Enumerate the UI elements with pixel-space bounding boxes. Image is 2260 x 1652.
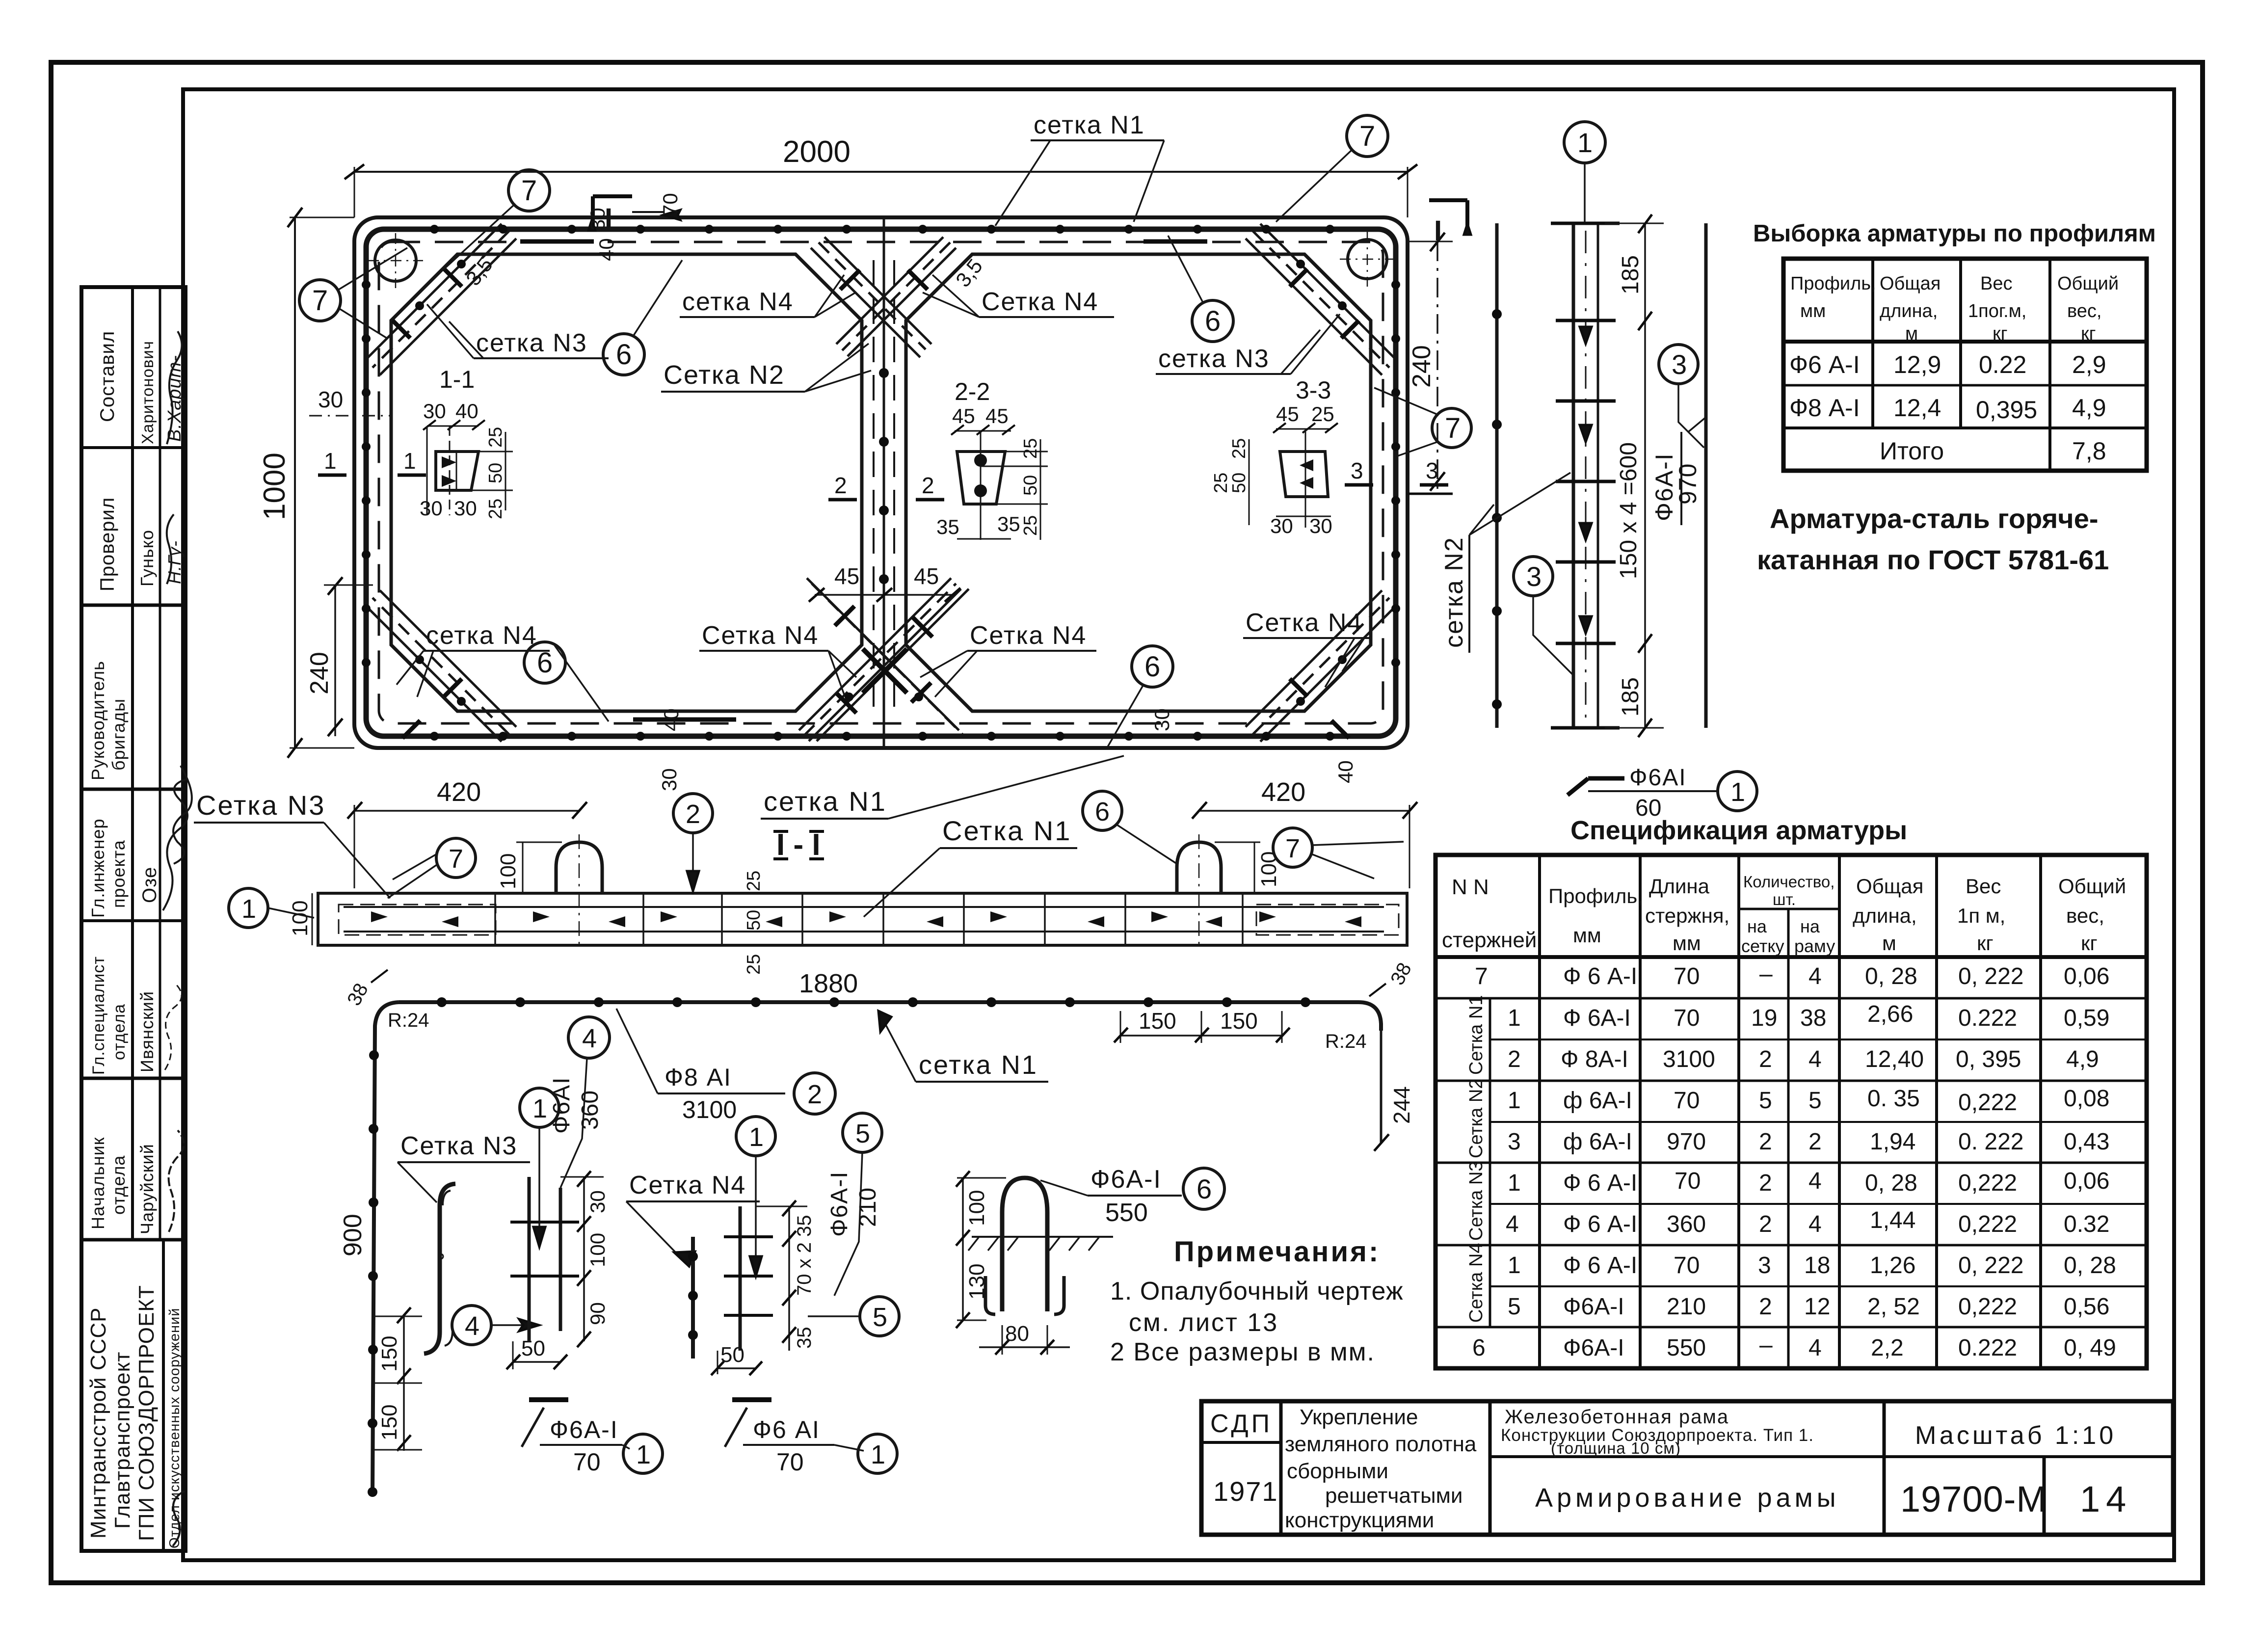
svg-text:2-2: 2-2 <box>955 378 990 405</box>
svg-text:Масштаб 1:10: Масштаб 1:10 <box>1915 1421 2116 1450</box>
svg-text:Профиль,: Профиль, <box>1548 884 1643 907</box>
svg-text:70: 70 <box>1674 963 1700 989</box>
svg-text:6: 6 <box>1205 305 1221 337</box>
svg-text:6: 6 <box>616 339 632 371</box>
svg-text:Ивянский: Ивянский <box>137 991 157 1072</box>
svg-text:Сетка N2: Сетка N2 <box>1466 1079 1487 1158</box>
svg-text:0, 28: 0, 28 <box>1865 1170 1917 1196</box>
svg-text:45: 45 <box>1276 402 1299 426</box>
svg-text:7: 7 <box>449 844 463 874</box>
svg-text:3-3: 3-3 <box>1296 376 1331 404</box>
svg-text:Сетка N4: Сетка N4 <box>982 288 1098 316</box>
svg-text:0,43: 0,43 <box>2064 1129 2109 1155</box>
svg-text:0. 35: 0. 35 <box>1867 1086 1920 1112</box>
svg-text:900: 900 <box>339 1214 367 1256</box>
svg-text:0, 222: 0, 222 <box>1958 1252 2023 1279</box>
svg-text:Длина: Длина <box>1649 875 1710 898</box>
svg-text:550: 550 <box>1667 1335 1706 1361</box>
svg-text:сетка N1: сетка N1 <box>919 1050 1038 1080</box>
svg-text:45: 45 <box>985 404 1009 427</box>
svg-text:1: 1 <box>241 894 256 924</box>
svg-text:2: 2 <box>1759 1046 1772 1072</box>
svg-text:35: 35 <box>936 515 959 538</box>
svg-text:Ф6А-I: Ф6А-I <box>826 1171 852 1237</box>
svg-text:Арматура-сталь горяче-: Арматура-сталь горяче- <box>1770 503 2098 534</box>
svg-text:решетчатыми: решетчатыми <box>1325 1484 1462 1508</box>
svg-text:3: 3 <box>1508 1129 1521 1155</box>
svg-text:100: 100 <box>1257 852 1281 887</box>
svg-text:Сетка N1: Сетка N1 <box>1466 995 1487 1075</box>
svg-text:25: 25 <box>1020 438 1041 459</box>
svg-text:3100: 3100 <box>682 1096 737 1123</box>
svg-text:35: 35 <box>794 1215 815 1237</box>
svg-text:70: 70 <box>659 193 682 216</box>
svg-text:40: 40 <box>595 238 618 261</box>
svg-text:30: 30 <box>454 497 477 520</box>
svg-text:Ф6А-I: Ф6А-I <box>1563 1335 1624 1361</box>
svg-text:1: 1 <box>749 1122 764 1152</box>
svg-text:12,4: 12,4 <box>1893 394 1941 422</box>
svg-text:90: 90 <box>586 1302 609 1325</box>
svg-text:100: 100 <box>586 1233 609 1267</box>
svg-text:0,59: 0,59 <box>2064 1005 2109 1031</box>
svg-text:4: 4 <box>1808 1168 1822 1194</box>
svg-text:Профиль,: Профиль, <box>1790 273 1876 294</box>
svg-text:см. лист 13: см. лист 13 <box>1129 1308 1278 1337</box>
svg-text:1971: 1971 <box>1213 1476 1278 1507</box>
svg-text:150 x 4 =600: 150 x 4 =600 <box>1616 442 1642 579</box>
svg-text:150: 150 <box>377 1405 401 1440</box>
svg-text:7,8: 7,8 <box>2072 437 2106 465</box>
svg-text:Харитонович: Харитонович <box>138 341 157 444</box>
svg-text:Общий: Общий <box>2058 875 2126 898</box>
svg-text:19: 19 <box>1751 1005 1777 1031</box>
svg-text:на: на <box>1800 916 1820 936</box>
svg-text:2: 2 <box>1759 1294 1772 1320</box>
svg-text:1п м,: 1п м, <box>1957 904 2005 927</box>
svg-text:(толщина 10 см): (толщина 10 см) <box>1551 1439 1681 1457</box>
svg-text:1: 1 <box>1508 1170 1521 1196</box>
svg-text:I - I: I - I <box>776 828 821 862</box>
svg-text:4: 4 <box>1808 1211 1822 1237</box>
svg-text:раму: раму <box>1794 936 1835 956</box>
svg-text:кг: кг <box>1977 932 1994 955</box>
svg-text:Спецификация арматуры: Спецификация арматуры <box>1570 816 1907 845</box>
svg-text:мм: мм <box>1573 924 1601 947</box>
svg-text:14: 14 <box>2080 1479 2132 1519</box>
svg-text:0,222: 0,222 <box>1958 1090 2017 1116</box>
svg-text:0, 28: 0, 28 <box>1865 963 1917 989</box>
svg-text:1: 1 <box>871 1440 885 1469</box>
svg-text:сетка N4: сетка N4 <box>426 621 537 650</box>
svg-text:4: 4 <box>1506 1211 1519 1237</box>
svg-text:185: 185 <box>1618 677 1644 717</box>
svg-text:1пог.м,: 1пог.м, <box>1968 301 2026 321</box>
svg-text:30: 30 <box>1309 514 1332 537</box>
svg-text:Руководитель: Руководитель <box>88 661 108 780</box>
svg-text:Озе: Озе <box>139 867 160 903</box>
svg-text:Сетка N4: Сетка N4 <box>970 621 1087 650</box>
svg-text:5: 5 <box>1508 1294 1521 1320</box>
svg-text:6: 6 <box>1095 797 1110 826</box>
svg-text:земляного полотна: земляного полотна <box>1285 1432 1477 1456</box>
svg-text:1: 1 <box>1508 1088 1521 1114</box>
svg-text:отдела: отдела <box>110 1004 129 1060</box>
svg-text:70 x 2: 70 x 2 <box>794 1242 815 1296</box>
svg-text:сетка N4: сетка N4 <box>682 288 794 316</box>
svg-text:Составил: Составил <box>97 331 118 422</box>
svg-text:Главтранспроект: Главтранспроект <box>110 1352 134 1529</box>
svg-text:Сетка N4: Сетка N4 <box>1246 609 1362 637</box>
svg-text:1: 1 <box>1508 1005 1521 1031</box>
svg-text:Ф8 А-I: Ф8 А-I <box>1789 394 1860 422</box>
svg-text:Количество,: Количество, <box>1743 873 1835 891</box>
svg-text:сетка N1: сетка N1 <box>1034 111 1145 139</box>
svg-text:Ф6А-I: Ф6А-I <box>1563 1294 1624 1320</box>
svg-text:30: 30 <box>1150 708 1173 731</box>
svg-text:Сетка N3: Сетка N3 <box>1466 1161 1487 1241</box>
svg-text:сетка N3: сетка N3 <box>1158 345 1270 373</box>
svg-text:25: 25 <box>1211 473 1231 493</box>
svg-text:Минтрансстрой СССР: Минтрансстрой СССР <box>86 1307 110 1539</box>
svg-text:7: 7 <box>1359 120 1375 152</box>
svg-text:2: 2 <box>1808 1129 1822 1155</box>
svg-text:150: 150 <box>1220 1008 1258 1034</box>
svg-text:7: 7 <box>521 175 537 207</box>
svg-text:сетка N3: сетка N3 <box>476 329 587 357</box>
svg-text:6: 6 <box>1144 651 1160 683</box>
svg-text:30: 30 <box>658 768 681 791</box>
svg-text:0. 222: 0. 222 <box>1958 1129 2023 1155</box>
svg-text:1: 1 <box>1730 777 1745 807</box>
svg-text:м: м <box>1905 323 1918 344</box>
svg-text:Сетка N4: Сетка N4 <box>702 621 819 650</box>
svg-text:12: 12 <box>1804 1294 1830 1320</box>
svg-text:I: I <box>1434 215 1442 247</box>
svg-text:Сетка N1: Сетка N1 <box>942 815 1071 846</box>
svg-text:м: м <box>1882 932 1896 955</box>
svg-text:130: 130 <box>965 1264 989 1300</box>
svg-text:сетка N1: сетка N1 <box>764 786 887 817</box>
svg-text:240: 240 <box>1408 345 1436 388</box>
svg-text:СДП: СДП <box>1210 1410 1273 1438</box>
svg-text:0, 222: 0, 222 <box>1958 963 2023 989</box>
svg-text:Ф 6 А-I: Ф 6 А-I <box>1563 1170 1637 1196</box>
svg-text:4,9: 4,9 <box>2066 1046 2099 1072</box>
svg-text:Общая: Общая <box>1880 273 1941 294</box>
svg-text:3: 3 <box>1526 561 1542 592</box>
svg-text:45: 45 <box>952 404 975 427</box>
svg-text:стержня,: стержня, <box>1645 904 1729 927</box>
svg-text:Гунько: Гунько <box>137 530 157 586</box>
svg-text:50: 50 <box>1020 475 1041 496</box>
svg-text:0,395: 0,395 <box>1976 396 2037 424</box>
svg-text:0,06: 0,06 <box>2064 1168 2109 1194</box>
svg-text:Проверил: Проверил <box>97 497 118 591</box>
svg-text:2,9: 2,9 <box>2072 351 2106 378</box>
svg-text:4: 4 <box>582 1024 597 1053</box>
svg-text:1-1: 1-1 <box>439 366 475 393</box>
svg-text:25: 25 <box>1229 438 1250 459</box>
svg-text:R:24: R:24 <box>388 1010 429 1031</box>
svg-text:45: 45 <box>914 563 939 589</box>
svg-text:Сетка N3: Сетка N3 <box>196 790 325 821</box>
svg-text:970: 970 <box>1674 464 1702 505</box>
svg-text:В.Харит-: В.Харит- <box>164 355 185 442</box>
svg-text:Ф 8А-I: Ф 8А-I <box>1561 1046 1628 1072</box>
svg-text:длина,: длина, <box>1880 301 1938 321</box>
svg-text:50: 50 <box>1229 473 1250 493</box>
svg-text:0.22: 0.22 <box>1979 351 2026 378</box>
svg-text:360: 360 <box>577 1091 603 1130</box>
svg-text:420: 420 <box>1261 777 1305 807</box>
svg-text:100: 100 <box>965 1190 989 1226</box>
svg-text:150: 150 <box>377 1336 401 1372</box>
svg-text:4: 4 <box>1808 1046 1822 1072</box>
svg-text:Общая: Общая <box>1856 875 1923 898</box>
svg-text:Ф8 АI: Ф8 АI <box>665 1064 732 1091</box>
svg-text:на: на <box>1747 916 1767 936</box>
svg-text:3: 3 <box>1672 349 1687 380</box>
svg-text:Общий: Общий <box>2057 273 2119 294</box>
svg-text:кг: кг <box>2081 932 2098 955</box>
svg-text:сетку: сетку <box>1741 936 1784 956</box>
svg-text:Сетка N2: Сетка N2 <box>664 360 785 390</box>
svg-text:100: 100 <box>288 901 312 936</box>
svg-text:ф 6А-I: ф 6А-I <box>1563 1088 1632 1114</box>
svg-text:0,222: 0,222 <box>1958 1294 2017 1320</box>
svg-text:45: 45 <box>834 563 859 589</box>
svg-text:2,2: 2,2 <box>1871 1335 1904 1361</box>
svg-text:Вес: Вес <box>1980 273 2012 294</box>
svg-text:2: 2 <box>922 473 934 498</box>
svg-text:50: 50 <box>744 910 764 931</box>
svg-text:конструкциями: конструкциями <box>1285 1508 1434 1532</box>
svg-text:Ф 6 А-I: Ф 6 А-I <box>1563 963 1637 989</box>
svg-text:25: 25 <box>1020 515 1041 536</box>
svg-text:35: 35 <box>997 512 1020 535</box>
svg-text:25: 25 <box>744 954 764 975</box>
svg-text:мм: мм <box>1800 301 1826 321</box>
svg-text:50: 50 <box>720 1343 744 1367</box>
svg-text:2: 2 <box>807 1080 822 1109</box>
svg-text:–: – <box>1759 961 1773 987</box>
svg-text:1,26: 1,26 <box>1870 1252 1915 1279</box>
svg-text:70: 70 <box>1674 1252 1700 1279</box>
svg-text:Итого: Итого <box>1880 437 1944 465</box>
svg-text:1. Опалубочный чертеж: 1. Опалубочный чертеж <box>1110 1277 1404 1306</box>
svg-text:Ф 6А-I: Ф 6А-I <box>1563 1005 1631 1031</box>
svg-text:вес,: вес, <box>2066 904 2104 927</box>
svg-text:0,222: 0,222 <box>1958 1211 2017 1237</box>
svg-text:50: 50 <box>485 463 506 483</box>
svg-text:катанная по ГОСТ 5781-61: катанная по ГОСТ 5781-61 <box>1757 544 2109 575</box>
svg-text:2000: 2000 <box>783 135 851 169</box>
svg-text:мм: мм <box>1673 932 1701 955</box>
svg-text:Чаруйский: Чаруйский <box>137 1144 157 1234</box>
svg-text:25: 25 <box>1311 402 1334 426</box>
svg-text:6: 6 <box>1472 1335 1486 1361</box>
svg-text:240: 240 <box>305 652 334 694</box>
svg-text:12,40: 12,40 <box>1865 1046 1924 1072</box>
svg-text:1: 1 <box>636 1440 651 1469</box>
svg-text:1000: 1000 <box>258 453 292 520</box>
svg-text:Сетка N3: Сетка N3 <box>400 1132 517 1160</box>
svg-text:18: 18 <box>1804 1252 1830 1279</box>
svg-text:3100: 3100 <box>1663 1046 1715 1072</box>
svg-text:7: 7 <box>1445 412 1461 444</box>
svg-text:Сетка N4: Сетка N4 <box>1466 1243 1487 1323</box>
svg-text:Н.Гу-: Н.Гу- <box>164 540 185 584</box>
svg-text:сетка N2: сетка N2 <box>1440 536 1468 648</box>
svg-text:бригады: бригады <box>108 698 129 771</box>
svg-text:R:24: R:24 <box>1325 1031 1367 1052</box>
svg-text:4: 4 <box>465 1311 479 1341</box>
svg-text:40: 40 <box>660 708 683 731</box>
svg-text:185: 185 <box>1618 255 1644 294</box>
svg-text:2: 2 <box>1759 1129 1772 1155</box>
svg-text:30: 30 <box>586 208 609 231</box>
svg-text:Ф6А-I: Ф6А-I <box>1090 1165 1162 1194</box>
svg-text:0,222: 0,222 <box>1958 1170 2017 1196</box>
svg-text:Выборка арматуры по профилям: Выборка арматуры по профилям <box>1753 220 2156 247</box>
svg-text:7: 7 <box>312 285 328 317</box>
svg-text:30: 30 <box>423 400 446 423</box>
svg-text:Сетка N4: Сетка N4 <box>629 1171 746 1199</box>
svg-text:ГПИ СОЮЗДОРПРОЕКТ: ГПИ СОЮЗДОРПРОЕКТ <box>134 1285 159 1541</box>
svg-text:ф 6А-I: ф 6А-I <box>1563 1129 1632 1155</box>
svg-text:0.32: 0.32 <box>2064 1211 2109 1237</box>
svg-text:длина,: длина, <box>1853 904 1917 927</box>
svg-text:80: 80 <box>1005 1322 1029 1346</box>
svg-text:сборными: сборными <box>1287 1459 1388 1483</box>
svg-text:1880: 1880 <box>799 969 858 998</box>
svg-text:Ф 6 А-I: Ф 6 А-I <box>1563 1252 1637 1279</box>
svg-text:1: 1 <box>324 448 337 474</box>
svg-text:210: 210 <box>1667 1294 1706 1320</box>
svg-text:проекта: проекта <box>108 840 129 908</box>
svg-text:Гл.специалист: Гл.специалист <box>89 956 108 1075</box>
svg-text:2 Все размеры в мм.: 2 Все размеры в мм. <box>1110 1338 1375 1366</box>
svg-text:0,06: 0,06 <box>2064 963 2109 989</box>
svg-text:5: 5 <box>1808 1088 1822 1114</box>
svg-text:6: 6 <box>1196 1173 1212 1204</box>
svg-text:0.222: 0.222 <box>1958 1005 2017 1031</box>
svg-text:70: 70 <box>573 1448 601 1476</box>
svg-text:вес,: вес, <box>2067 301 2101 321</box>
svg-text:30: 30 <box>318 387 343 412</box>
svg-text:N N: N N <box>1452 875 1489 899</box>
svg-text:7: 7 <box>1285 834 1300 863</box>
svg-text:Ф6А-I: Ф6А-I <box>550 1416 618 1443</box>
svg-text:0,08: 0,08 <box>2064 1086 2109 1112</box>
svg-text:0, 395: 0, 395 <box>1956 1046 2021 1072</box>
svg-text:5: 5 <box>873 1303 887 1332</box>
svg-text:Железобетонная рама: Железобетонная рама <box>1505 1406 1729 1428</box>
svg-text:Гл.инженер: Гл.инженер <box>88 819 108 918</box>
svg-text:2: 2 <box>1508 1046 1521 1072</box>
svg-text:2, 52: 2, 52 <box>1867 1294 1920 1320</box>
svg-text:40: 40 <box>455 400 479 423</box>
svg-text:Ф6АI: Ф6АI <box>549 1076 575 1134</box>
svg-text:2,66: 2,66 <box>1867 1001 1913 1027</box>
svg-text:2: 2 <box>1759 1170 1772 1196</box>
svg-text:244: 244 <box>1389 1086 1414 1124</box>
svg-text:19700-М: 19700-М <box>1900 1479 2047 1519</box>
svg-text:0,56: 0,56 <box>2064 1294 2109 1320</box>
svg-text:35: 35 <box>794 1327 815 1349</box>
svg-text:5: 5 <box>1759 1088 1772 1114</box>
svg-text:0.222: 0.222 <box>1958 1335 2017 1361</box>
svg-text:Ф6 АI: Ф6 АI <box>753 1416 820 1443</box>
svg-text:70: 70 <box>1674 1005 1700 1031</box>
svg-text:4,9: 4,9 <box>2072 394 2106 422</box>
svg-text:1: 1 <box>532 1094 547 1123</box>
svg-text:1: 1 <box>403 448 416 474</box>
svg-text:1: 1 <box>1577 127 1593 158</box>
svg-text:5: 5 <box>855 1119 870 1148</box>
svg-text:Ф6 А-I: Ф6 А-I <box>1789 351 1860 378</box>
svg-text:30: 30 <box>586 1190 609 1213</box>
svg-text:Укрепление: Укрепление <box>1300 1405 1418 1429</box>
svg-text:шт.: шт. <box>1773 890 1796 908</box>
svg-text:150: 150 <box>1139 1008 1176 1034</box>
svg-text:50: 50 <box>521 1336 545 1360</box>
svg-text:отдела: отдела <box>108 1155 129 1215</box>
svg-text:2: 2 <box>1759 1211 1772 1237</box>
svg-text:4: 4 <box>1808 963 1822 989</box>
svg-text:70: 70 <box>1674 1088 1700 1114</box>
svg-text:1: 1 <box>1508 1252 1521 1279</box>
svg-text:1,44: 1,44 <box>1870 1207 1915 1233</box>
svg-text:3: 3 <box>1426 458 1438 483</box>
svg-text:–: – <box>1759 1332 1773 1358</box>
svg-text:550: 550 <box>1105 1199 1148 1227</box>
svg-text:Ф6АI: Ф6АI <box>1629 765 1687 791</box>
svg-text:3: 3 <box>1351 458 1363 483</box>
svg-text:25: 25 <box>485 427 506 448</box>
svg-text:360: 360 <box>1667 1211 1706 1237</box>
svg-text:Ф 6 А-I: Ф 6 А-I <box>1563 1211 1637 1237</box>
svg-text:Примечания:: Примечания: <box>1174 1236 1380 1268</box>
svg-text:100: 100 <box>496 853 520 889</box>
svg-text:30: 30 <box>1270 514 1293 537</box>
svg-text:70: 70 <box>1675 1168 1701 1194</box>
svg-text:кг: кг <box>2081 323 2096 344</box>
svg-text:70: 70 <box>776 1448 804 1476</box>
svg-text:4: 4 <box>1808 1335 1822 1361</box>
svg-text:420: 420 <box>437 777 481 807</box>
svg-text:3: 3 <box>1758 1252 1771 1279</box>
svg-text:Вес: Вес <box>1966 875 2001 898</box>
svg-text:Армирование рамы: Армирование рамы <box>1535 1483 1840 1513</box>
svg-text:7: 7 <box>1475 963 1488 989</box>
svg-text:970: 970 <box>1667 1129 1706 1155</box>
svg-text:0, 28: 0, 28 <box>2064 1252 2116 1279</box>
svg-text:40: 40 <box>1334 760 1357 783</box>
svg-text:38: 38 <box>1800 1005 1826 1031</box>
svg-text:кг: кг <box>1993 323 2008 344</box>
svg-text:25: 25 <box>485 499 506 519</box>
svg-text:25: 25 <box>744 871 764 891</box>
svg-text:1,94: 1,94 <box>1870 1129 1915 1155</box>
svg-text:стержней: стержней <box>1442 928 1537 952</box>
svg-text:Начальник: Начальник <box>88 1137 108 1229</box>
svg-text:12,9: 12,9 <box>1893 351 1941 378</box>
svg-text:2: 2 <box>834 473 847 498</box>
svg-text:0, 49: 0, 49 <box>2064 1335 2116 1361</box>
svg-text:2: 2 <box>686 799 700 829</box>
